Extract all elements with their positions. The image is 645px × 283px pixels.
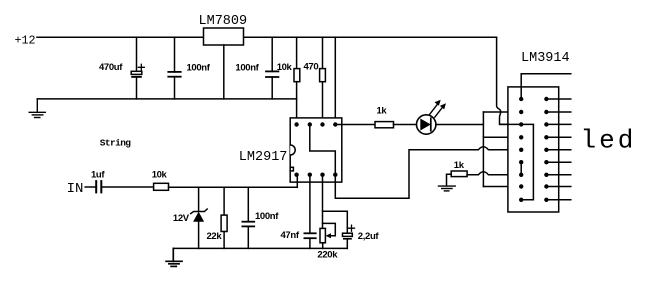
potentiometer R7 220k [317, 175, 338, 261]
wire LED to node [436, 124, 484, 126]
capacitor C5 100nf [242, 187, 279, 248]
svg-text:47nf: 47nf [281, 230, 300, 241]
wire node vertical bus x=483.4 [482, 112, 484, 187]
wire top +12 rail [37, 36, 497, 38]
ground G1 [29, 99, 45, 118]
svg-text:22k: 22k [207, 231, 223, 242]
svg-text:1k: 1k [377, 106, 388, 117]
wire IN to C4 [85, 186, 96, 188]
resistor R3 1k [375, 106, 394, 128]
LED D1 [417, 100, 447, 135]
resistor R1 10k [277, 37, 300, 124]
wire LM3914 top pin out [521, 74, 571, 99]
zener diode D2 12V [173, 187, 207, 248]
svg-text:10k: 10k [277, 62, 293, 73]
svg-text:100nf: 100nf [235, 63, 259, 74]
svg-text:1uf: 1uf [91, 170, 105, 181]
capacitor C3 100nf [235, 37, 278, 99]
wire lower ground rail [173, 247, 347, 249]
svg-text:String: String [100, 137, 132, 148]
resistor R6 22k [207, 187, 228, 248]
wire 1k to LED [394, 124, 417, 126]
wire LM2917 pin to LM3914 row5 with hop [335, 147, 521, 199]
IC U2 LM2917 [239, 118, 342, 182]
svg-text:2,2uf: 2,2uf [358, 231, 380, 242]
resistor R4 1k with ground [439, 160, 468, 191]
svg-text:100nf: 100nf [187, 63, 211, 74]
wire R5 to LM2917 pin1 [169, 186, 298, 188]
svg-text:470uf: 470uf [99, 62, 123, 73]
wire LM2917 internal pin2-pin8 [310, 125, 336, 175]
IC U3 LM3914 [508, 51, 570, 212]
svg-text:IN: IN [67, 181, 84, 197]
svg-text:12V: 12V [173, 213, 190, 224]
svg-text:LM2917: LM2917 [239, 150, 288, 165]
wire upper ground rail [37, 98, 296, 100]
wire top rail to LM2917 pin (V+) [334, 37, 336, 124]
wire link rows 6-7 [520, 162, 522, 175]
wire LM2917 output to 1k [335, 124, 375, 126]
wire 1k to LM3914 row7 with hop [467, 172, 521, 175]
svg-text:10k: 10k [152, 170, 168, 181]
resistor R2 470 [304, 37, 326, 124]
wire to LM3914 pin row4 [483, 136, 521, 138]
pin dots LM3914 left column [519, 97, 523, 202]
svg-text:220k: 220k [317, 250, 338, 261]
svg-text:470: 470 [304, 62, 319, 73]
wire LM2917 pin1 lead [296, 175, 298, 188]
capacitor C4 1uf [91, 170, 105, 193]
pin dots LM2917 top row [294, 122, 337, 126]
svg-text:LM3914: LM3914 [521, 51, 570, 66]
wires LM3914 right pins [546, 99, 570, 200]
svg-text:LM7809: LM7809 [199, 14, 248, 29]
svg-text:led: led [581, 126, 637, 156]
wire to LM3914 pin row2 [483, 111, 521, 113]
regulator U1 LM7809 [204, 28, 244, 45]
svg-text:+12: +12 [15, 33, 36, 47]
resistor R5 10k [152, 170, 169, 191]
wire C4 to R5 [101, 186, 153, 188]
svg-text:1k: 1k [454, 160, 465, 171]
svg-text:100nf: 100nf [255, 211, 279, 222]
capacitor C6 47nf [281, 175, 316, 249]
pin dots LM2917 bottom row [294, 173, 337, 177]
wire LM3914 internal pin3 to pin9 [500, 124, 533, 199]
capacitor C1 470uf [99, 37, 144, 99]
capacitor C7 2,2uf [323, 211, 380, 248]
wire +12 drop to LM3914 pin3 with hop over pin2 wire [497, 37, 522, 124]
ground G2 [166, 248, 182, 266]
wire to LM3914 pin row8 [483, 186, 521, 188]
wire LM7809 ground lead [223, 45, 225, 99]
pin dots LM3914 right column [544, 97, 548, 202]
capacitor C2 100nf [168, 37, 210, 99]
